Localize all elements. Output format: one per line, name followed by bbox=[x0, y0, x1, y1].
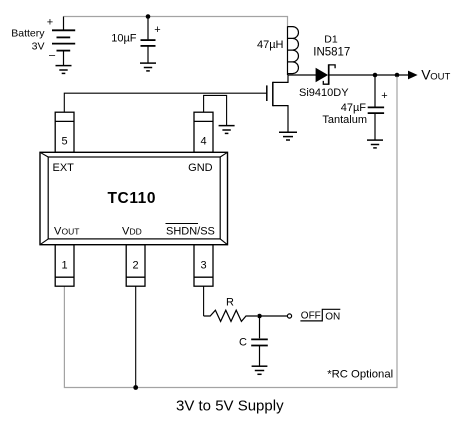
wire inductor to diode bbox=[288, 74, 317, 76]
svg-text:TC110: TC110 bbox=[107, 190, 156, 207]
svg-text:3V to 5V Supply: 3V to 5V Supply bbox=[176, 398, 284, 415]
svg-text:2: 2 bbox=[133, 260, 139, 272]
pin 1 bbox=[55, 245, 74, 287]
arrow VOUT bbox=[408, 71, 418, 80]
svg-text:+: + bbox=[154, 24, 160, 36]
svg-text:OUT: OUT bbox=[62, 227, 80, 237]
svg-text:Tantalum: Tantalum bbox=[322, 114, 367, 126]
wire junction to switch terminal bbox=[262, 315, 288, 317]
node junction top (10uF tap) bbox=[146, 14, 151, 19]
transistor Q1 Si9410DY MOSFET bbox=[64, 75, 288, 132]
node open terminal bbox=[287, 314, 291, 318]
svg-text:+: + bbox=[381, 90, 387, 102]
svg-text:Si9410DY: Si9410DY bbox=[299, 87, 349, 99]
svg-text:1: 1 bbox=[62, 260, 68, 272]
node output cap tap bbox=[373, 73, 378, 78]
ground C bbox=[252, 366, 268, 374]
svg-text:5: 5 bbox=[62, 136, 68, 148]
svg-text:OFF: OFF bbox=[301, 311, 321, 322]
node junction bottom bbox=[133, 385, 138, 390]
ground MOSFET source bbox=[279, 132, 297, 140]
op-amp U1 TC110 body bbox=[40, 152, 228, 244]
svg-text:47µH: 47µH bbox=[257, 39, 284, 51]
svg-text:+: + bbox=[47, 17, 53, 29]
svg-text:D1: D1 bbox=[324, 34, 338, 46]
svg-text:–: – bbox=[49, 50, 56, 62]
diode D1 IN5817 bbox=[316, 68, 327, 81]
wire pin4 to ground bbox=[204, 95, 227, 125]
svg-text:10µF: 10µF bbox=[111, 33, 137, 45]
wire 10uF tap bbox=[147, 17, 149, 40]
svg-text:GND: GND bbox=[188, 162, 213, 174]
pin 3 bbox=[194, 245, 213, 287]
pin 5 bbox=[55, 112, 74, 152]
ground battery bbox=[56, 66, 72, 74]
svg-text:*RC Optional: *RC Optional bbox=[327, 368, 393, 380]
wire top rail battery to inductor bbox=[64, 17, 288, 27]
ground 47uF bbox=[367, 140, 383, 148]
svg-text:3V: 3V bbox=[32, 40, 45, 52]
capacitor C 10uF bbox=[141, 40, 156, 62]
wire pin2 VDD drop bbox=[135, 286, 137, 387]
capacitor C 47uF tantalum bbox=[368, 75, 384, 140]
svg-text:ON: ON bbox=[325, 311, 340, 322]
svg-text:4: 4 bbox=[200, 136, 206, 148]
inductor L1 47uH bbox=[288, 26, 299, 75]
pin 4 bbox=[194, 112, 213, 152]
pin 2 bbox=[126, 245, 145, 287]
svg-text:DD: DD bbox=[130, 227, 142, 237]
svg-text:IN5817: IN5817 bbox=[313, 46, 350, 58]
ground 10uF bbox=[140, 63, 156, 71]
capacitor C (optional) bbox=[251, 316, 268, 366]
svg-text:R: R bbox=[226, 297, 234, 309]
svg-text:C: C bbox=[239, 337, 247, 349]
wire pin3 to resistor bbox=[203, 286, 205, 316]
svg-text:3: 3 bbox=[200, 260, 206, 272]
svg-text:EXT: EXT bbox=[53, 162, 75, 174]
svg-text:47µF: 47µF bbox=[341, 102, 367, 114]
ground pin4 bbox=[219, 126, 235, 134]
battery 3V bbox=[52, 17, 75, 66]
wire feedback loop VOUT to pin1/pin2 bbox=[64, 77, 397, 388]
node output feedback tap bbox=[395, 73, 400, 78]
svg-text:OUT: OUT bbox=[430, 71, 450, 82]
wire diode to output bbox=[329, 74, 409, 76]
resistor R bbox=[204, 310, 257, 321]
node R/C junction bbox=[257, 314, 262, 319]
svg-text:Battery: Battery bbox=[11, 27, 45, 39]
svg-text:SHDN/SS: SHDN/SS bbox=[166, 226, 215, 238]
